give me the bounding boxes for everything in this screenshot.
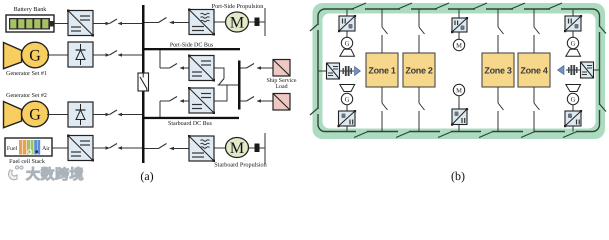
svg-text:Air: Air (42, 146, 50, 152)
svg-text:大数跨境: 大数跨境 (26, 166, 84, 183)
svg-text:Fuel cell Stack: Fuel cell Stack (9, 158, 45, 165)
svg-text:Battery Bank: Battery Bank (14, 6, 48, 13)
svg-text:G: G (571, 97, 576, 104)
svg-text:(b): (b) (451, 169, 465, 183)
svg-text:Port-Side DC Bus: Port-Side DC Bus (170, 42, 214, 49)
svg-text:Starboard Propulsion: Starboard Propulsion (214, 162, 266, 169)
svg-text:G: G (571, 41, 576, 48)
svg-text:(a): (a) (140, 169, 153, 183)
svg-text:Starboard DC Bus: Starboard DC Bus (168, 120, 213, 127)
svg-text:M: M (230, 140, 244, 157)
svg-text:Zone 4: Zone 4 (520, 66, 547, 76)
svg-text:G: G (29, 107, 41, 124)
svg-text:Generator Set #1: Generator Set #1 (6, 71, 47, 77)
svg-text:M: M (456, 43, 462, 50)
svg-text:Generator Set #2: Generator Set #2 (6, 93, 47, 99)
svg-text:Zone 1: Zone 1 (368, 66, 395, 76)
svg-text:Ship Service: Ship Service (267, 77, 297, 84)
svg-text:G: G (345, 41, 350, 48)
svg-text:M: M (456, 88, 462, 95)
svg-text:Port-Side Propulsion: Port-Side Propulsion (212, 3, 264, 10)
svg-text:Zone 3: Zone 3 (484, 66, 511, 76)
svg-text:Zone 2: Zone 2 (405, 66, 432, 76)
svg-text:G: G (29, 48, 41, 65)
svg-text:M: M (230, 15, 244, 32)
svg-text:G: G (345, 97, 350, 104)
svg-text:Load: Load (275, 83, 287, 90)
svg-text:Fuel: Fuel (7, 145, 18, 152)
